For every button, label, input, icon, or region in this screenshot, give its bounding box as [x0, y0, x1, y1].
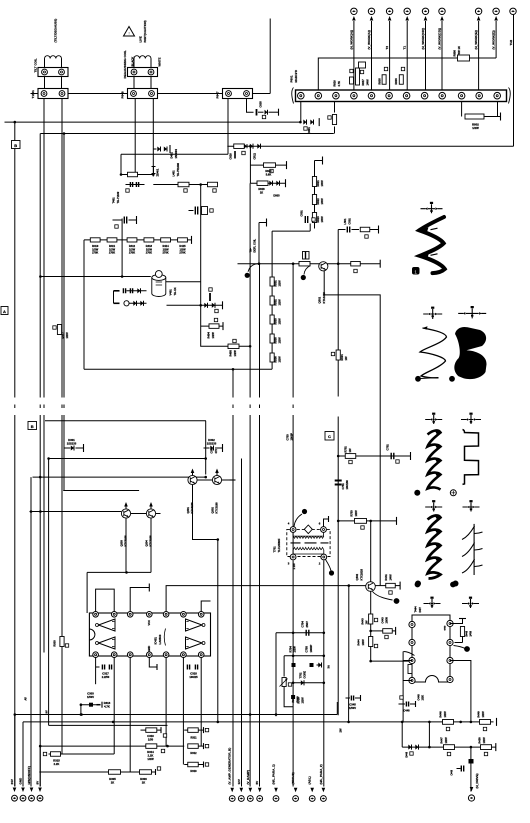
wire emitter [370, 591, 372, 661]
block pin [447, 639, 453, 645]
svg-text:Q301: Q301 [186, 507, 190, 514]
wire bus J y=420.3 [45, 420, 206, 422]
svg-text:1/2W: 1/2W [443, 711, 447, 718]
svg-text:R502: R502 [274, 299, 278, 306]
svg-text:T752: T752 [299, 672, 303, 678]
svg-text:1/2W: 1/2W [278, 356, 282, 363]
arrow [322, 788, 326, 793]
svg-text:250V: 250V [305, 621, 309, 627]
terminal (V_RAMP) [247, 796, 253, 802]
svg-text:TLF14568F: TLF14568F [277, 538, 281, 552]
svg-text:C310: C310 [147, 734, 154, 738]
svg-text:C443: C443 [381, 617, 385, 624]
wire [462, 637, 464, 643]
svg-text:R821: R821 [316, 180, 320, 187]
wire x337 [337, 230, 339, 397]
svg-text:1SS133: 1SS133 [67, 441, 77, 445]
wire [113, 291, 115, 304]
svg-text:C835: C835 [259, 101, 263, 108]
svg-text:TH-71109: TH-71109 [116, 191, 120, 203]
capacitor C317 [102, 665, 104, 670]
wire [272, 230, 310, 232]
svg-text:1/2W: 1/2W [233, 350, 237, 357]
arrow [249, 788, 253, 793]
paren right [509, 88, 511, 104]
svg-text:1/2W: 1/2W [278, 299, 282, 306]
svg-text:2.2K: 2.2K [54, 762, 60, 766]
junction [258, 262, 261, 265]
wire bus 724.9 [49, 724, 168, 726]
diode D444 [318, 662, 321, 667]
resistor R502 [270, 296, 274, 305]
svg-text:IC451: IC451 [154, 637, 158, 645]
capacitor C449 [461, 766, 463, 772]
svg-text:1/2W: 1/2W [301, 697, 305, 704]
IC pin bottom [93, 652, 99, 658]
svg-text:C449: C449 [451, 769, 454, 775]
svg-text:D401: D401 [170, 152, 174, 159]
resistor R441 [386, 583, 396, 588]
wire rail x=39.9 [39, 134, 41, 398]
paren [164, 629, 165, 646]
sheet marker B [12, 141, 21, 149]
svg-text:(V_WORK(CD)): (V_WORK(CD)) [438, 28, 442, 50]
svg-text:C502: C502 [348, 218, 352, 225]
block pin [409, 677, 415, 683]
arrow (V_WORK(A)) [370, 16, 374, 21]
resistor R311 [188, 728, 199, 733]
wire bus 714 [15, 714, 338, 716]
resistor R405 [228, 344, 239, 349]
svg-text:1/2W: 1/2W [481, 711, 485, 718]
wire feed [121, 219, 123, 277]
svg-text:D446: D446 [406, 751, 409, 757]
svg-text:1N4004: 1N4004 [174, 149, 178, 159]
wire [315, 160, 323, 162]
resistor R753 [355, 519, 367, 524]
svg-text:R450: R450 [478, 737, 482, 744]
svg-text:R446: R446 [466, 630, 469, 636]
svg-text:CORE: CORE [303, 671, 307, 679]
wire bus A [5, 121, 301, 123]
wire lineD [121, 153, 228, 155]
arrow (V_WORK(CD)) [440, 16, 444, 21]
svg-text:B: B [31, 424, 34, 429]
svg-text:Q501: Q501 [318, 296, 322, 303]
svg-text:1/2W: 1/2W [278, 337, 282, 344]
capacitor C318 [187, 665, 189, 670]
svg-text:MAIN B'D: MAIN B'D [294, 70, 298, 83]
wire x=249.6 [249, 183, 251, 397]
connector P948 [128, 89, 158, 99]
IC pin bottom [181, 652, 187, 658]
svg-text:TH-XX: TH-XX [173, 287, 177, 295]
waveform 7 ramps [473, 524, 475, 575]
svg-text:R806: R806 [453, 50, 457, 57]
svg-text:L401: L401 [172, 170, 176, 177]
wire y682 [293, 682, 324, 684]
svg-text:R305: R305 [109, 777, 116, 781]
arrow (H_WORK(CD)) [424, 16, 428, 21]
svg-text:Q304: Q304 [145, 540, 149, 547]
svg-text:1000P: 1000P [290, 433, 294, 441]
capacitor C345 [351, 696, 353, 701]
wire pin3 riser [334, 102, 336, 113]
wire [120, 154, 122, 174]
wire bus F right [338, 455, 410, 457]
arrow [274, 788, 278, 793]
wire [80, 705, 82, 715]
arrow [38, 788, 42, 793]
IC451 box [89, 613, 210, 656]
wire rail x=30 [30, 477, 32, 786]
winding secondary [293, 547, 296, 550]
resistor R803 [399, 75, 403, 85]
wire pin1 riser [300, 102, 302, 123]
arrow T2 [388, 16, 392, 21]
probe 2 [415, 376, 421, 382]
svg-text:P947: P947 [216, 91, 220, 98]
wire [441, 21, 443, 90]
terminal (H/L_PARA_2) [321, 796, 327, 802]
svg-text:R803: R803 [394, 78, 398, 85]
svg-text:1/2W: 1/2W [278, 318, 282, 325]
arrow (H_WORK(A)) [352, 16, 356, 21]
T751 pin3 [290, 554, 296, 560]
wire x=323.3 [323, 561, 325, 787]
resistor R306 [140, 770, 152, 775]
winding primary [293, 533, 323, 537]
svg-text:R505: R505 [274, 337, 278, 344]
svg-text:5.6K: 5.6K [266, 172, 272, 176]
svg-text:1/4W: 1/4W [320, 198, 324, 205]
wire [478, 21, 480, 90]
curl Q402 [373, 592, 393, 601]
svg-text:R312: R312 [190, 751, 197, 755]
svg-text:1/2K: 1/2K [421, 695, 425, 701]
wire hdrive [470, 747, 472, 791]
wire V_WORK_E to pin2 [470, 57, 497, 59]
svg-text:DST: DST [418, 607, 422, 613]
wire R753 line [338, 520, 396, 522]
svg-text:C448: C448 [403, 709, 410, 713]
wire VR [283, 656, 285, 677]
connector P947 [223, 89, 253, 99]
resistor R447 [444, 745, 455, 750]
svg-text:4.7K: 4.7K [337, 81, 341, 87]
axis w2a [423, 309, 442, 319]
resistor R501 [270, 277, 274, 286]
wire x=232.5 [232, 369, 234, 397]
svg-text:R405: R405 [229, 350, 233, 357]
svg-text:R444: R444 [357, 639, 361, 646]
svg-text:1/2W: 1/2W [354, 510, 358, 517]
svg-text:LIVE: LIVE [139, 36, 143, 42]
capacitor C502 [347, 227, 349, 233]
svg-text:Q402: Q402 [355, 573, 359, 580]
svg-text:C345: C345 [349, 703, 356, 707]
svg-text:1/2W: 1/2W [472, 126, 479, 130]
axis w6b [463, 503, 480, 512]
svg-text:DEGAUSSING COIL: DEGAUSSING COIL [123, 50, 127, 78]
diode D445 [301, 680, 304, 685]
block pin [409, 657, 415, 663]
wire y304.8 [167, 304, 223, 306]
svg-text:2.2/50: 2.2/50 [102, 675, 110, 679]
diode D301 [64, 447, 71, 449]
svg-text:R822: R822 [316, 198, 320, 205]
svg-text:9V: 9V [45, 710, 49, 713]
zener ZD401 [152, 167, 156, 174]
diamond [304, 525, 312, 534]
waveform 6 sawtooth [428, 515, 441, 578]
wire [121, 174, 153, 176]
wire [197, 479, 212, 481]
resistor R505 [270, 334, 274, 343]
svg-text:LA6500: LA6500 [158, 634, 162, 644]
wire bus 721.4 [23, 721, 494, 723]
wire bus 771.5 [39, 771, 155, 773]
resistor R509 [360, 227, 370, 232]
sheet marker A [1, 307, 8, 315]
svg-text:C752: C752 [386, 444, 390, 451]
axis w8a [424, 599, 441, 608]
resistor R445 [383, 629, 393, 634]
resistors R410-R415 [90, 238, 100, 242]
wire [428, 722, 430, 747]
resistor R821 [312, 177, 316, 187]
curl Q501 base [304, 266, 311, 275]
svg-text:R310: R310 [190, 769, 197, 773]
svg-text:A: A [3, 309, 6, 314]
svg-text:R313: R313 [104, 701, 111, 705]
terminal 24V [12, 795, 18, 801]
wire bus B [40, 133, 333, 135]
T751 pin4 [290, 527, 296, 533]
connector T1101 upper block [38, 68, 68, 77]
IC pin top [127, 612, 133, 618]
wire bus E [238, 263, 381, 265]
resistor R313 [97, 704, 101, 706]
terminal (H_WORK(A)) [351, 8, 357, 14]
svg-text:GND: GND [445, 625, 447, 630]
arrow (H_WORK(E)) [477, 16, 481, 21]
svg-text:472: 472 [214, 449, 218, 454]
svg-text:1/50V: 1/50V [349, 706, 356, 710]
svg-text:R816: R816 [333, 80, 337, 87]
terminal TH2 [510, 8, 516, 14]
probe 4 [414, 490, 420, 496]
wire pin4 stub [149, 658, 157, 668]
svg-text:C754: C754 [301, 621, 305, 628]
waveform 2 sine [420, 328, 447, 378]
block T444 [412, 615, 450, 682]
svg-text:100/160: 100/160 [345, 480, 349, 490]
wire bus 368.8 [84, 368, 272, 370]
capacitor C504 [303, 252, 310, 260]
wire [375, 585, 385, 587]
wire Q301 emitter [193, 485, 218, 540]
svg-text:270K: 270K [146, 251, 152, 255]
svg-text:270K: 270K [92, 251, 98, 255]
svg-text:1W: 1W [344, 356, 348, 360]
svg-text:R449: R449 [477, 711, 481, 718]
resistor R317 [57, 325, 61, 335]
resistor R310 [188, 762, 199, 767]
svg-text:R504: R504 [340, 354, 344, 361]
resistor R444 [369, 637, 373, 647]
wire bus F y=458 [49, 458, 206, 460]
wire x=205 riser [205, 421, 207, 475]
axis w8b [462, 599, 479, 608]
terminal (ABL) [309, 796, 315, 802]
probe 1 [412, 267, 420, 275]
transistor Q402 [366, 582, 376, 592]
capacitor C752 [391, 453, 394, 460]
probe 7 [453, 581, 459, 587]
mark sq2 [310, 663, 314, 667]
svg-text:3A: 3A [327, 665, 331, 668]
svg-text:L501: L501 [343, 218, 347, 224]
terminal 9V [37, 795, 43, 801]
terminal (45V/+B) [293, 796, 299, 802]
svg-text:R348: R348 [291, 696, 295, 703]
svg-text:R447: R447 [440, 737, 444, 744]
probe 5 [450, 490, 456, 496]
diode D803 [269, 181, 272, 186]
axis w2b [458, 308, 486, 318]
arrow [294, 788, 298, 793]
svg-text:1/4W: 1/4W [389, 574, 393, 581]
terminal (V_WORK(A)) [368, 8, 374, 14]
resistor R802 [465, 114, 484, 119]
core [291, 542, 329, 544]
svg-text:P948: P948 [121, 91, 125, 98]
capacitor C414 row [114, 302, 120, 304]
wire row top [84, 239, 192, 241]
wire IC drive [166, 586, 349, 612]
wire [222, 479, 230, 481]
wire bus 745.6 [40, 745, 184, 747]
resistor R446 [443, 720, 454, 725]
tick [379, 260, 381, 268]
svg-text:R503: R503 [274, 318, 278, 325]
wire rail x=61.5 [61, 99, 63, 398]
svg-text:TH-751000: TH-751000 [176, 163, 180, 177]
svg-text:12V: 12V [237, 779, 241, 784]
svg-text:KTC2026: KTC2026 [360, 568, 364, 580]
diode D802 [250, 144, 253, 149]
transistor Q303 [121, 509, 130, 518]
arrow [258, 788, 262, 793]
IC pin bottom [111, 652, 117, 658]
wire [14, 715, 16, 787]
resistor R305 [109, 770, 121, 775]
svg-text:1/2W: 1/2W [211, 332, 215, 339]
resistor R447v [408, 665, 412, 674]
svg-text:C318: C318 [190, 672, 197, 676]
svg-text:T401: T401 [112, 197, 116, 204]
svg-text:VCC: VCC [147, 620, 151, 626]
svg-text:R805: R805 [378, 78, 382, 85]
terminal 12V [238, 796, 244, 802]
wire vcc stub [130, 588, 149, 612]
wire [276, 632, 324, 634]
wire [371, 660, 412, 662]
svg-text:R754: R754 [289, 646, 293, 653]
diode D401 [157, 146, 160, 151]
connector bar pins [298, 92, 305, 99]
svg-text:1: 1 [414, 269, 417, 274]
terminal (H_WORK(CD)) [422, 8, 428, 14]
svg-text:T2: T2 [385, 46, 389, 50]
terminal 5V [257, 796, 263, 802]
svg-text:1K: 1K [111, 781, 114, 785]
resistor R508 [351, 261, 361, 266]
op-amp B [99, 637, 116, 649]
wire y655 [284, 655, 324, 657]
curl pin2 [326, 560, 332, 572]
capacitor C405 [208, 182, 218, 187]
resistor R450 [481, 745, 492, 750]
svg-text:1K: 1K [260, 190, 263, 194]
IC pin bottom [147, 652, 153, 658]
wire rail x=43.5 [43, 99, 45, 398]
waveform 1 [419, 217, 445, 273]
wire x=259 [259, 264, 261, 398]
resistor R503 [270, 315, 274, 324]
resistor R818 [257, 181, 268, 186]
svg-text:AV: AV [24, 697, 28, 701]
arrow [21, 788, 25, 793]
wire [349, 585, 366, 587]
svg-text:R753: R753 [350, 510, 354, 517]
capacitor C406 [195, 207, 197, 215]
svg-text:C303: C303 [87, 692, 94, 696]
resistor R443 [369, 614, 373, 624]
svg-text:C448: C448 [417, 694, 421, 701]
diode D302 [204, 447, 210, 449]
svg-text:1/2W: 1/2W [361, 639, 365, 646]
svg-text:R349: R349 [296, 696, 300, 703]
wire [353, 21, 355, 90]
svg-text:R446: R446 [439, 711, 443, 718]
triode V401 [152, 278, 166, 297]
connector P948 upper block [128, 68, 158, 77]
svg-text:1/2W: 1/2W [444, 737, 448, 744]
resistor R315 [51, 752, 61, 757]
warning triangle [124, 27, 135, 37]
diode D446 [408, 745, 411, 750]
wire [153, 184, 217, 186]
capacitor C816 [234, 151, 236, 159]
svg-text:T751: T751 [273, 546, 277, 553]
curl pin4 [294, 514, 302, 527]
resistor R823 [312, 213, 316, 223]
svg-text:Q303: Q303 [120, 540, 124, 547]
svg-text:GND: GND [19, 777, 23, 785]
resistor R303 [60, 637, 64, 647]
op-amp D [186, 637, 203, 649]
wire [450, 619, 463, 624]
diode D801 [303, 120, 306, 125]
wire conn P947 riser [227, 99, 229, 155]
svg-text:R306: R306 [140, 777, 147, 781]
resistor R816 [350, 77, 354, 84]
svg-text:C751: C751 [341, 483, 345, 490]
arrow T1 [405, 16, 409, 21]
resistor R449 [480, 720, 491, 725]
